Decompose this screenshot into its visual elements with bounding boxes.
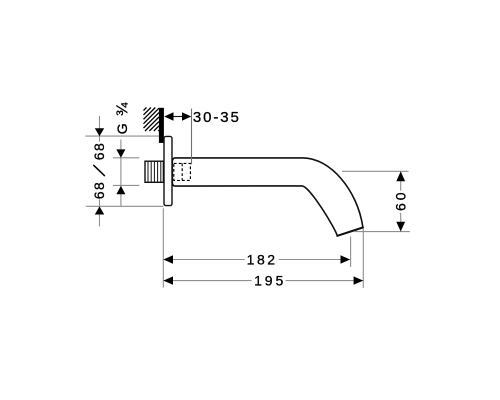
arrow 30-35 left xyxy=(164,112,173,120)
escutcheon plate xyxy=(164,136,172,205)
dimension line 195 xyxy=(163,280,363,282)
arrow 60 top xyxy=(396,171,405,181)
extension line 30-35 xyxy=(191,109,193,165)
svg-text:68: 68 xyxy=(91,181,107,199)
arrow 60 bottom xyxy=(396,222,405,232)
svg-text:68: 68 xyxy=(91,142,107,160)
arrow 68/68 bottom xyxy=(95,206,104,214)
label 68/68 xyxy=(91,142,107,200)
label 182 xyxy=(245,251,279,267)
label G3/4 xyxy=(114,102,132,134)
arrow 68/68 top xyxy=(95,128,104,136)
extension line 182 right xyxy=(350,237,352,267)
thread lines xyxy=(148,161,161,182)
extension line 195 right xyxy=(362,229,364,289)
dimension line 60 xyxy=(400,171,402,231)
arrow G3/4 bottom xyxy=(116,186,125,194)
hidden supply pipe (dashed) xyxy=(174,163,191,180)
dimension line 68/68 xyxy=(99,116,101,226)
arrow 195 left xyxy=(163,276,173,284)
extension line left (wall face) xyxy=(162,208,164,287)
spout body xyxy=(172,158,363,236)
arrow 182 left xyxy=(163,255,173,263)
svg-text:195: 195 xyxy=(254,273,286,289)
label 60 xyxy=(393,189,409,212)
label 195 xyxy=(252,273,287,289)
extension line plate bottom xyxy=(86,205,164,207)
extension line 60 bottom xyxy=(354,231,410,233)
wall bar xyxy=(159,108,164,143)
arrow 182 right xyxy=(341,255,351,263)
svg-text:182: 182 xyxy=(247,251,278,267)
arrow 30-35 right xyxy=(182,112,191,120)
wall hatching xyxy=(144,108,160,132)
spout outlet face xyxy=(337,228,363,236)
extension line plate top xyxy=(85,135,159,137)
svg-text:30-35: 30-35 xyxy=(193,109,241,126)
svg-text:60: 60 xyxy=(393,189,409,211)
svg-text:G ¾: G ¾ xyxy=(114,102,132,134)
extension line pipe bottom xyxy=(113,184,139,186)
dimension line 30-35 xyxy=(173,116,184,118)
threaded pipe xyxy=(145,161,163,182)
extension line pipe top xyxy=(113,157,139,159)
arrow G3/4 top xyxy=(116,149,125,157)
arrow 195 right xyxy=(354,276,364,284)
dimension line 182 xyxy=(163,259,350,261)
dimension line G3/4 xyxy=(120,140,122,207)
extension line 60 top xyxy=(342,170,409,172)
